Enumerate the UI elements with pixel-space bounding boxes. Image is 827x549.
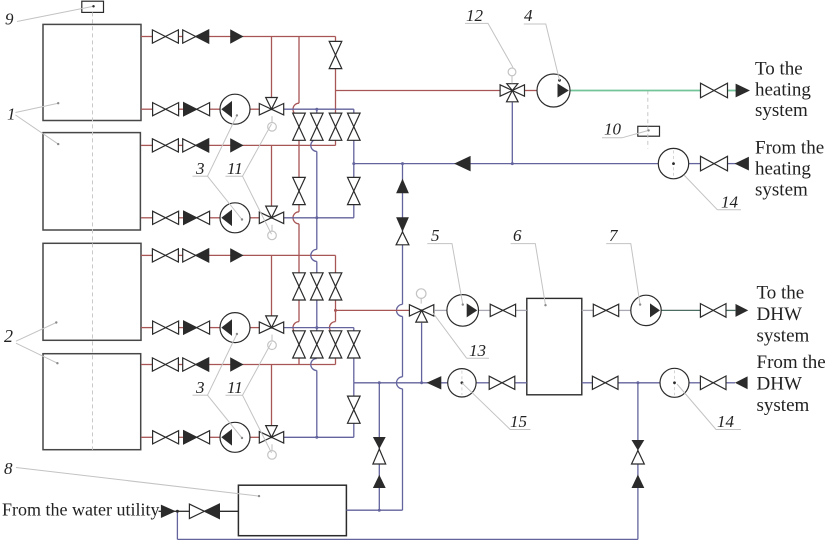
meter 15 — [448, 369, 476, 397]
check valve boiler return — [184, 431, 197, 444]
pipe 3-way supply drop R3 — [271, 145, 273, 206]
svg-text:3: 3 — [195, 159, 205, 178]
svg-text:heating: heating — [755, 80, 811, 101]
label 9 with leader — [17, 6, 94, 21]
pipe heating return main — [354, 163, 659, 165]
pipe hop V1-R2 — [293, 103, 299, 115]
svg-text:system: system — [755, 180, 808, 201]
heat exchanger 6 — [527, 298, 582, 394]
pipe boiler supply row — [141, 254, 152, 256]
svg-text:DHW: DHW — [757, 374, 802, 395]
pipe make-up branch x379 — [378, 383, 380, 510]
sensor dashed link 10 — [647, 91, 649, 149]
pipe hop x402-DHW-supply — [397, 304, 403, 316]
pump 3 — [220, 313, 250, 343]
pump 5 DHW — [447, 295, 479, 327]
flow arrow boiler supply — [231, 30, 243, 42]
sensor box 9 — [82, 1, 104, 12]
gate valve DHW return A — [489, 376, 502, 389]
valve V4 B4 — [348, 177, 361, 191]
svg-text:11: 11 — [227, 378, 243, 397]
svg-text:14: 14 — [721, 193, 739, 212]
gate valve to heating system — [701, 83, 715, 98]
pump 4 main circulation — [537, 74, 570, 107]
svg-text:13: 13 — [469, 341, 486, 360]
label 7 with leader — [606, 244, 640, 305]
svg-text:To the: To the — [757, 283, 805, 304]
pipe boiler return row — [141, 327, 153, 329]
svg-text:To the: To the — [755, 59, 803, 80]
label 10 with leader — [602, 130, 649, 137]
pipe boiler supply row — [141, 144, 152, 146]
pipe return header R2 — [284, 108, 354, 110]
svg-text:heating: heating — [755, 159, 811, 180]
flow arrow boiler supply — [231, 358, 243, 370]
flow arrow boiler supply — [231, 139, 243, 151]
svg-text:system: system — [755, 100, 808, 121]
gate valve boiler return — [153, 321, 166, 334]
pipe boiler return row — [141, 436, 153, 438]
valve V1 A1 — [293, 113, 306, 127]
arrow to DHW system — [736, 305, 747, 316]
valve V3 D3 — [329, 331, 342, 345]
label 2 with leaders — [16, 323, 56, 342]
valve V2 C2 — [311, 273, 324, 287]
svg-text:DHW: DHW — [757, 304, 802, 325]
pipe DHW supply teal — [662, 309, 701, 311]
gate valve boiler supply — [152, 139, 165, 152]
pipe riser V3 upper — [335, 37, 337, 91]
boiler 1 — [43, 24, 141, 120]
pipe hop x402-DHW-return — [397, 377, 403, 389]
pipe riser V3 lower — [335, 255, 337, 321]
valve V2 D2 — [311, 331, 324, 345]
3-way valve 13 — [409, 305, 421, 316]
water treatment box 8 — [238, 485, 346, 536]
pump 2 — [220, 203, 250, 233]
label 13 with leader — [467, 357, 489, 359]
label 8 with leader — [16, 468, 259, 497]
label 4 with leader — [524, 24, 560, 80]
pump 1 — [220, 94, 250, 124]
svg-text:10: 10 — [604, 120, 622, 139]
arrow from heating system — [736, 158, 748, 170]
check valve boiler supply — [183, 249, 196, 262]
pipe return header R8 — [284, 436, 354, 438]
svg-text:3: 3 — [195, 378, 205, 397]
valve main shutoff top — [329, 41, 342, 55]
actuator 3-way valve 11 — [271, 335, 273, 341]
pipe make-up riser x402 — [402, 164, 404, 305]
label 11 upper with leaders — [226, 175, 243, 177]
actuator 3-way valve 11 — [271, 225, 273, 231]
boiler 2 — [43, 133, 140, 230]
mark in box 9 — [92, 5, 94, 7]
gate valve boiler return — [153, 103, 166, 116]
actuator 3-way valve 11 — [271, 444, 273, 450]
3-way valve 11 — [259, 212, 271, 223]
boiler centerline dashed — [92, 12, 94, 449]
pipe hop V2-R5 — [311, 249, 317, 261]
pump 7 DHW circulation — [631, 295, 661, 325]
boiler 4 — [43, 354, 141, 450]
label 6 with leader — [511, 244, 546, 306]
check valve on x638 — [632, 440, 645, 451]
svg-text:From the water utility: From the water utility — [2, 500, 159, 520]
pipe valve12 to pump4 red — [525, 90, 537, 92]
flow arrow boiler supply — [231, 249, 243, 261]
pipe return header R4 — [284, 217, 354, 219]
gate valve boiler supply — [152, 358, 165, 371]
pipe boiler supply row — [141, 36, 152, 38]
junction V2-R4 — [315, 216, 318, 219]
pipe boiler supply row — [141, 364, 152, 366]
svg-text:9: 9 — [5, 10, 14, 29]
pipe hop V2-R7 — [311, 359, 317, 371]
pipe water utility inlet — [159, 510, 162, 512]
pipe boiler return row — [141, 108, 153, 110]
pipe hop V3-R6 — [330, 322, 336, 334]
arrow water utility — [162, 506, 175, 518]
pipe riser V2 — [316, 109, 318, 139]
gate valve DHW supply A — [490, 304, 503, 316]
svg-text:system: system — [757, 395, 810, 416]
svg-text:From the: From the — [757, 352, 826, 373]
check valve boiler supply — [183, 139, 196, 152]
pipe hop V1-R4 — [293, 212, 299, 224]
check valve boiler supply — [183, 358, 196, 371]
pipe hop V2-R3 — [311, 139, 317, 151]
check valve boiler return — [184, 321, 197, 334]
pipe riser V1 — [298, 37, 300, 104]
valve V3 A3 — [329, 113, 342, 127]
pipe cold feed riser x638 — [637, 383, 639, 540]
3-way valve 11 — [259, 432, 271, 443]
svg-text:5: 5 — [431, 226, 440, 245]
pipe DHW return — [354, 382, 448, 384]
arrow DHW return flow — [428, 377, 441, 389]
junction dots — [315, 108, 318, 111]
arrow heating return flow — [456, 157, 471, 171]
pipe valve12 return drop — [511, 102, 513, 163]
check valve boiler return — [184, 211, 197, 224]
sensor box 10 — [638, 126, 660, 136]
pipe heating supply green — [570, 90, 701, 92]
pump 4 — [220, 422, 250, 452]
pipe riser V4 upper — [353, 109, 355, 163]
pipe DHW supply red — [336, 309, 410, 311]
pipe boiler return row — [141, 217, 153, 219]
label 12 with leader — [465, 23, 513, 67]
svg-text:8: 8 — [4, 459, 13, 478]
label 1 with leaders — [16, 103, 59, 112]
valve V4 A4 — [348, 113, 361, 127]
svg-text:14: 14 — [717, 412, 735, 431]
arrow to heating system — [736, 85, 748, 97]
pipe box8 outlet — [346, 509, 402, 511]
gate valve DHW return B — [592, 376, 605, 389]
boiler 3 — [43, 243, 141, 340]
valve V2 A2 — [311, 113, 324, 127]
gate valve from DHW system — [700, 376, 713, 390]
pipe 3-way supply drop R7 — [271, 365, 273, 426]
meter 14 heating — [658, 148, 688, 178]
3-way valve 11 — [259, 322, 271, 333]
label 3 upper with leaders — [193, 175, 208, 177]
gate valve boiler return — [153, 211, 166, 224]
label 14 heating with leader — [717, 209, 741, 211]
gate valve DHW supply B — [593, 304, 606, 316]
pipe DHW supply gray segments — [435, 309, 448, 311]
arrow from DHW system — [736, 377, 747, 388]
valve water utility — [189, 504, 204, 518]
valve V4 D4 — [348, 331, 361, 345]
actuator 3-way valve 11 — [271, 116, 273, 122]
svg-text:11: 11 — [227, 159, 243, 178]
pipe 3-way supply drop R1 — [271, 37, 273, 98]
svg-text:system: system — [757, 326, 810, 347]
valve V1 D1 — [293, 331, 306, 345]
gate valve from heating system — [701, 156, 715, 171]
svg-text:6: 6 — [513, 226, 522, 245]
gate valve boiler supply — [152, 249, 165, 262]
label 3 lower with leaders — [193, 394, 208, 396]
svg-text:12: 12 — [466, 6, 484, 25]
meter 14 DHW — [660, 368, 689, 397]
3-way valve 11 — [259, 104, 271, 115]
valve V4 E4 — [348, 396, 361, 410]
label 15 with leader — [462, 383, 531, 430]
pipe bottom main — [177, 538, 638, 540]
pipe hop V1-R6 — [293, 322, 299, 334]
gate valve to DHW system — [700, 304, 713, 318]
svg-text:1: 1 — [7, 105, 16, 124]
pipe 3-way supply drop R5 — [271, 255, 273, 315]
check valve boiler return — [184, 103, 197, 116]
svg-text:4: 4 — [524, 6, 533, 25]
check valve arrows on x402 — [396, 179, 409, 194]
pipe heating supply main red — [336, 90, 501, 92]
label 14 DHW with leader — [677, 384, 741, 430]
3-way valve 12 — [500, 85, 512, 96]
check valve boiler supply — [183, 30, 196, 43]
valve V1 B1 — [293, 177, 306, 191]
valve V3 C3 — [329, 273, 342, 287]
svg-text:From the: From the — [755, 138, 824, 159]
pipe return header R6 — [284, 327, 354, 329]
pipe utility drop to bottom main — [176, 511, 178, 539]
svg-text:15: 15 — [510, 412, 527, 431]
pipe valve13 drop — [421, 323, 423, 383]
pipe riser V4 lower — [353, 328, 355, 383]
valve V1 C1 — [293, 273, 306, 287]
actuator valve 12 — [511, 76, 513, 84]
check valve on x379 — [373, 437, 386, 449]
gate valve boiler supply — [152, 30, 165, 43]
label 5 with leader — [427, 244, 463, 305]
label 11 lower with leaders — [226, 394, 243, 396]
gate valve boiler return — [153, 431, 166, 444]
actuator valve 13 — [420, 298, 422, 303]
svg-text:2: 2 — [4, 326, 13, 346]
